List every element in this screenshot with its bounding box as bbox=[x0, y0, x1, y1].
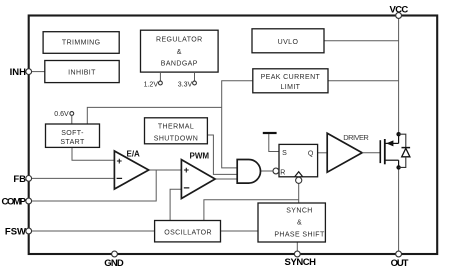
wire VCC net vertical bbox=[398, 18, 400, 134]
wire AND gate output to R bubble bbox=[260, 170, 273, 172]
pin VCC bbox=[390, 4, 409, 18]
wire FSW pin to OSCILLATOR input bbox=[31, 230, 155, 232]
svg-text:REGULATOR: REGULATOR bbox=[156, 36, 203, 43]
svg-text:OUT: OUT bbox=[391, 258, 409, 269]
wire SYNCH block to SYNCH pin bbox=[296, 242, 298, 252]
wire latch Q output to DRIVER input bbox=[318, 152, 328, 154]
block REGULATOR & BANDGAP bbox=[141, 30, 219, 72]
svg-text:PEAK CURRENT: PEAK CURRENT bbox=[261, 74, 321, 81]
svg-text:&: & bbox=[297, 220, 302, 227]
svg-text:R: R bbox=[280, 169, 285, 176]
node MOSFET source junction bbox=[396, 165, 400, 169]
wire SOFT-START output to E/A non-inverting input bbox=[72, 147, 114, 160]
transistor power PMOS switch bbox=[362, 134, 399, 167]
svg-text:START: START bbox=[60, 139, 85, 146]
pin FB bbox=[13, 174, 31, 185]
wire OSCILLATOR to SYNCH PHASE SHIFT block bbox=[221, 230, 259, 232]
svg-text:S: S bbox=[282, 150, 287, 157]
svg-text:−: − bbox=[116, 173, 122, 185]
svg-text:0.6V: 0.6V bbox=[54, 111, 69, 118]
svg-text:FB: FB bbox=[13, 174, 26, 185]
svg-text:INHIBIT: INHIBIT bbox=[68, 69, 96, 76]
block TRIMMING bbox=[43, 32, 119, 54]
block THERMAL SHUTDOWN bbox=[145, 118, 208, 144]
svg-text:COMP: COMP bbox=[2, 196, 27, 207]
pin GND bbox=[104, 251, 124, 269]
svg-text:Q: Q bbox=[308, 151, 314, 158]
svg-text:PHASE SHIFT: PHASE SHIFT bbox=[274, 232, 325, 239]
wire OSCILLATOR clock to latch clock and SYNCH block bbox=[204, 200, 299, 221]
svg-text:+: + bbox=[184, 165, 190, 176]
svg-text:GND: GND bbox=[104, 258, 124, 269]
wire PWM output to AND gate bottom input bbox=[215, 178, 237, 180]
wire UVLO output to VCC net bbox=[324, 40, 399, 42]
wire INH pin to INHIBIT input bbox=[31, 71, 45, 73]
pin OUT bbox=[391, 251, 409, 269]
svg-text:+: + bbox=[117, 156, 123, 167]
pin FSW bbox=[5, 227, 32, 238]
wire COMP pin to E/A output node bbox=[31, 170, 156, 201]
wire SOFT-START top to peak-limit net bbox=[87, 107, 221, 124]
wire PEAK CURRENT LIMIT output to VCC net bbox=[328, 80, 399, 82]
terminal 3.3V output stub bbox=[178, 72, 197, 88]
pin COMP bbox=[2, 196, 32, 207]
svg-text:OSCILLATOR: OSCILLATOR bbox=[164, 229, 212, 236]
block SOFT-START bbox=[46, 124, 100, 147]
logic-high tie bar for latch S input bbox=[263, 133, 279, 152]
svg-text:INH: INH bbox=[10, 67, 27, 78]
svg-text:−: − bbox=[183, 183, 189, 195]
latch SR flip-flop bbox=[279, 144, 318, 176]
wire latch clock bubble to SYNCH block top bbox=[298, 183, 300, 203]
wire FB pin to E/A inverting input bbox=[31, 177, 114, 179]
svg-text:TRIMMING: TRIMMING bbox=[62, 40, 101, 47]
terminal 1.2V output stub bbox=[144, 72, 163, 88]
diode body diode bbox=[399, 134, 411, 167]
pin SYNCH bbox=[285, 251, 317, 268]
svg-text:&: & bbox=[177, 49, 182, 56]
svg-text:SHUTDOWN: SHUTDOWN bbox=[154, 135, 198, 142]
svg-text:SYNCH: SYNCH bbox=[286, 207, 313, 214]
inversion bubble on latch clock input bbox=[296, 177, 302, 183]
svg-text:BANDGAP: BANDGAP bbox=[161, 61, 198, 68]
block UVLO bbox=[252, 29, 324, 53]
AND gate bbox=[237, 160, 260, 184]
svg-text:1.2V: 1.2V bbox=[144, 81, 159, 88]
block INHIBIT bbox=[45, 61, 119, 83]
comparator PWM bbox=[181, 151, 215, 198]
svg-text:SYNCH: SYNCH bbox=[285, 257, 317, 268]
svg-text:THERMAL: THERMAL bbox=[158, 123, 194, 130]
wire OSCILLATOR ramp to PWM inverting input bbox=[170, 189, 181, 220]
svg-text:UVLO: UVLO bbox=[278, 39, 299, 46]
pin INH bbox=[10, 67, 32, 78]
buffer DRIVER bbox=[327, 133, 369, 172]
wire E/A output to PWM non-inverting input bbox=[149, 169, 182, 171]
svg-text:VCC: VCC bbox=[390, 4, 409, 15]
wire PEAK CURRENT LIMIT left output down to AND gate top input bbox=[222, 81, 253, 168]
svg-text:DRIVER: DRIVER bbox=[343, 133, 369, 142]
block PEAK CURRENT LIMIT bbox=[253, 69, 328, 93]
svg-text:PWM: PWM bbox=[190, 151, 210, 160]
svg-text:E/A: E/A bbox=[127, 149, 141, 158]
svg-text:SOFT-: SOFT- bbox=[61, 130, 84, 137]
wire MOSFET source to OUT pin bbox=[398, 167, 400, 251]
block SYNCH & PHASE SHIFT bbox=[258, 203, 325, 242]
svg-text:LIMIT: LIMIT bbox=[280, 84, 300, 91]
svg-text:3.3V: 3.3V bbox=[178, 81, 193, 88]
op-amp E/A error amplifier bbox=[114, 149, 148, 189]
svg-text:FSW: FSW bbox=[5, 227, 26, 238]
node MOSFET drain junction bbox=[396, 132, 400, 136]
terminal 0.6V reference bbox=[54, 111, 73, 124]
block OSCILLATOR bbox=[155, 221, 221, 242]
wire THERMAL SHUTDOWN output to AND gate middle input bbox=[207, 135, 237, 174]
inversion bubble on latch R input bbox=[273, 168, 279, 174]
